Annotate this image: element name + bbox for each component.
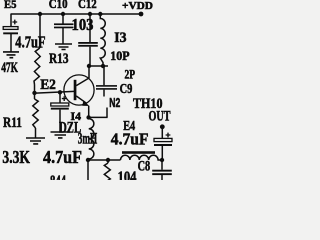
svg-text:4.7uF: 4.7uF [15, 33, 45, 52]
node bottom-left [86, 158, 90, 162]
capacitor C12 plates [78, 42, 98, 44]
capacitor C9 plates [96, 85, 117, 87]
node OUT terminal [160, 124, 165, 129]
wire R13 top [39, 14, 41, 48]
inductor I3 [100, 14, 105, 66]
node rail-R13 [38, 12, 42, 16]
wire collector node [89, 65, 108, 67]
resistor R11 [33, 99, 38, 128]
svg-text:I4: I4 [71, 111, 82, 123]
svg-text:R13: R13 [49, 51, 69, 67]
inductor L (C8 choke) [120, 155, 162, 160]
svg-text:C9: C9 [120, 82, 133, 97]
node bottom-right [160, 158, 164, 162]
svg-text:4.7uF: 4.7uF [111, 129, 149, 148]
svg-text:+VDD: +VDD [122, 0, 153, 12]
svg-text:103: 103 [72, 15, 94, 34]
wire down from emitter rail [87, 160, 89, 180]
svg-text:47K: 47K [1, 60, 18, 76]
ground E2 [51, 132, 71, 138]
transistor emitter lead [88, 106, 90, 118]
svg-text:2P: 2P [125, 67, 136, 81]
transistor emitter diagonal [76, 96, 86, 103]
transistor circle [64, 75, 94, 105]
capacitor E4 stem [161, 127, 163, 160]
svg-text:E2: E2 [40, 77, 56, 93]
resistor bottom [104, 163, 110, 181]
capacitor E2 bottom plate [51, 108, 69, 110]
svg-text:10P: 10P [110, 49, 130, 63]
node rail-C12 [88, 12, 92, 16]
node bottom-R [106, 158, 110, 162]
ground R11 [26, 138, 45, 144]
wire collector lead [88, 66, 90, 78]
svg-text:E5: E5 [4, 0, 17, 11]
transistor collector diagonal [76, 78, 89, 86]
svg-text:104: 104 [118, 169, 137, 180]
wire R13 bottom [34, 85, 36, 94]
node rail-I3 [98, 12, 102, 16]
wire resistor top [107, 160, 109, 163]
capacitor E2 top plate box [51, 103, 69, 106]
wire R11 top [34, 93, 36, 99]
node collector-C12 [87, 64, 91, 68]
svg-text:C12: C12 [78, 0, 97, 11]
capacitor E2 stem [59, 92, 61, 132]
node base-R11 [32, 91, 36, 95]
ground E5 [3, 52, 19, 58]
svg-text:844: 844 [50, 173, 66, 180]
svg-text:3.3K: 3.3K [2, 147, 30, 167]
capacitor C10 plates [54, 23, 74, 25]
node base-E2 [58, 90, 62, 94]
capacitor C10 stem [62, 14, 64, 44]
wire base [33, 91, 74, 93]
wire emitter node [89, 116, 108, 118]
node rail-C10 [61, 12, 65, 16]
capacitor C12 stem [89, 14, 91, 66]
transistor base bar [74, 80, 77, 100]
wire bottom rail [88, 159, 121, 161]
plus sign E4 [166, 133, 171, 138]
node emitter [86, 115, 90, 119]
transformer core bar [122, 151, 155, 154]
svg-text:OUT: OUT [149, 109, 171, 125]
node VDD terminal [139, 12, 144, 17]
capacitor E4 bottom plate [154, 144, 172, 146]
transistor emitter arrow [82, 100, 89, 106]
capacitor C8 plates [152, 170, 172, 172]
svg-text:N2: N2 [109, 96, 120, 110]
capacitor C8 stem [161, 160, 163, 180]
capacitor E4 top plate box [154, 138, 172, 141]
svg-text:C8: C8 [138, 159, 151, 175]
inductor I4 [88, 117, 94, 160]
wire R11 bottom [35, 128, 37, 138]
ground C10 [55, 44, 72, 50]
resistor R13 [34, 48, 40, 85]
plus sign E5 [12, 20, 17, 25]
capacitor E5 stem [10, 14, 12, 53]
node collector-I3 [101, 64, 105, 68]
svg-text:4.7uF: 4.7uF [43, 147, 82, 167]
plus sign E2 [62, 96, 67, 101]
capacitor E5 bottom plate [3, 32, 18, 34]
svg-text:R11: R11 [3, 115, 22, 131]
wire top rail +VDD [11, 13, 141, 15]
capacitor C9 stem [104, 66, 107, 117]
capacitor E5 top plate box [3, 27, 18, 30]
svg-text:C10: C10 [49, 0, 68, 11]
svg-text:I3: I3 [114, 30, 126, 46]
